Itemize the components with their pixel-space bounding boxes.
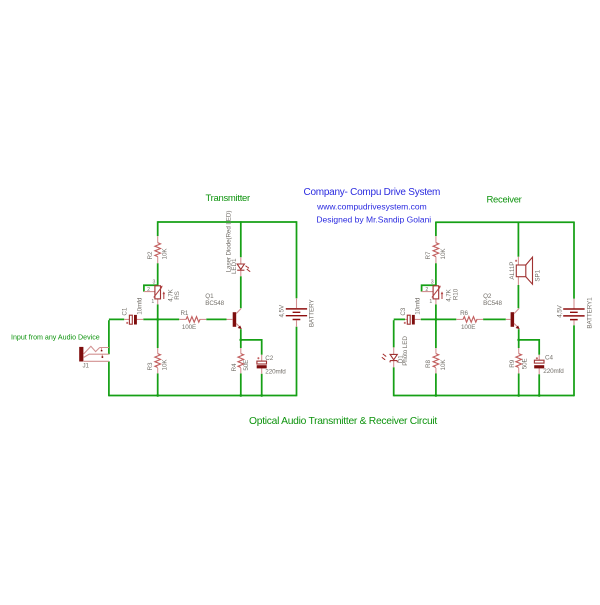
svg-text:Transmitter: Transmitter <box>206 193 251 204</box>
svg-text:4,5V: 4,5V <box>556 304 563 317</box>
resistor R7 <box>425 236 447 263</box>
wire RX battery top <box>573 222 575 299</box>
resistor R9 <box>509 348 529 373</box>
svg-text:C1: C1 <box>122 307 129 315</box>
svg-text:LED1: LED1 <box>231 258 238 274</box>
wire TX rail C1 to R1 <box>143 318 179 320</box>
wire RX R6 to Q2 base <box>483 318 506 320</box>
svg-text:10mfd: 10mfd <box>414 297 421 315</box>
wire TX emitter down <box>240 329 242 348</box>
svg-text:C3: C3 <box>400 307 407 315</box>
svg-text:AL11P: AL11P <box>509 262 516 280</box>
svg-text:J1: J1 <box>82 363 89 370</box>
battery BATTERY1 (4,5V) <box>556 297 593 329</box>
svg-text:R1: R1 <box>180 310 188 317</box>
svg-text:R4: R4 <box>231 363 238 371</box>
svg-text:10K: 10K <box>440 248 447 260</box>
wire RX emitter down <box>518 329 520 348</box>
svg-text:10K: 10K <box>162 359 169 371</box>
node TX R4 ground junction <box>239 394 242 397</box>
resistor R1 <box>179 310 206 331</box>
svg-text:50E: 50E <box>243 360 250 371</box>
svg-text:C4: C4 <box>545 355 553 362</box>
wire RX bottom rail <box>394 395 574 397</box>
speaker SP1 <box>509 257 542 285</box>
svg-text:SP1: SP1 <box>535 269 542 281</box>
svg-text:Receiver: Receiver <box>486 194 521 205</box>
wire TX left vertical lower (jack sleeve to ground) <box>108 361 110 396</box>
wire TX R1 to Q1 base <box>206 318 226 320</box>
wire TX R3 branch <box>157 319 159 395</box>
node TX C2 ground junction <box>260 394 263 397</box>
svg-text:C2: C2 <box>265 355 273 362</box>
svg-text:220mfd: 220mfd <box>543 368 564 375</box>
node RX R9 ground junction <box>517 394 520 397</box>
resistor R4 <box>231 348 250 373</box>
transistor Q2 <box>483 293 519 329</box>
node RX C4 ground junction <box>538 394 541 397</box>
svg-text:4,5V: 4,5V <box>279 304 286 317</box>
capacitor C4 <box>534 355 564 375</box>
battery BATTERY (4,5V) <box>279 298 316 327</box>
svg-text:Photo LED: Photo LED <box>402 336 409 366</box>
wire RX rail C3 to R6 <box>421 318 457 320</box>
svg-text:R9: R9 <box>509 359 516 367</box>
wire RX top rail <box>436 221 574 223</box>
resistor R2 <box>147 236 169 263</box>
svg-text:Designed by Mr.Sandip Golani: Designed by Mr.Sandip Golani <box>316 214 431 224</box>
wire RX C4 branch <box>519 340 540 396</box>
svg-text:Optical Audio Transmitter & Re: Optical Audio Transmitter & Receiver Cir… <box>249 416 437 427</box>
svg-text:BC548: BC548 <box>205 300 224 307</box>
svg-text:10K: 10K <box>162 248 169 260</box>
wire RX left corner (rail to D1 branch) <box>394 319 405 347</box>
wire TX trimmer wiper link <box>144 285 159 291</box>
trimmer R10 <box>422 280 460 306</box>
svg-text:R10: R10 <box>452 288 459 300</box>
svg-text:R3: R3 <box>147 362 154 370</box>
wire TX left vertical upper (jack signal to C1 corner) <box>109 319 124 354</box>
svg-text:R2: R2 <box>147 251 154 259</box>
svg-text:50E: 50E <box>521 358 528 369</box>
svg-text:2: 2 <box>147 287 150 293</box>
wire RX R9 to ground <box>518 373 520 395</box>
svg-text:Input from any Audio Device: Input from any Audio Device <box>11 334 100 342</box>
svg-text:Company- Compu Drive System: Company- Compu Drive System <box>303 187 440 198</box>
resistor R3 <box>147 348 169 373</box>
svg-text:3: 3 <box>431 280 434 286</box>
node TX emitter junction <box>239 339 242 342</box>
capacitor C1 <box>122 297 144 324</box>
svg-text:1: 1 <box>429 299 432 305</box>
wire RX D1 to ground <box>393 367 395 396</box>
svg-text:10K: 10K <box>440 359 447 371</box>
svg-text:2: 2 <box>425 287 428 293</box>
node RX rail junction <box>435 318 438 321</box>
svg-text:1: 1 <box>151 299 154 305</box>
svg-text:BC548: BC548 <box>483 300 502 307</box>
wire TX battery top <box>296 221 298 298</box>
node TX rail junction <box>156 318 159 321</box>
wire RX speaker branch <box>517 222 519 309</box>
svg-text:3: 3 <box>153 280 156 286</box>
LED LED1 <box>225 211 250 277</box>
svg-text:BATTERY1: BATTERY1 <box>587 297 594 329</box>
wire RX R8 branch <box>435 319 437 395</box>
wire RX R7 branch top <box>435 222 437 237</box>
wire TX trimmer to rail <box>157 304 159 319</box>
wire TX R2 branch top <box>157 221 159 236</box>
svg-text:R8: R8 <box>425 359 432 367</box>
wire RX trimmer to rail <box>435 304 437 319</box>
wire TX between R2 and trimmer <box>157 263 159 285</box>
wire TX top rail <box>158 221 297 223</box>
resistor R6 <box>456 310 483 331</box>
svg-text:R7: R7 <box>425 251 432 259</box>
node RX R8 ground junction <box>435 394 438 397</box>
transistor Q1 <box>205 293 241 329</box>
wire TX bottom rail <box>109 395 297 397</box>
node TX R3 ground junction <box>156 394 159 397</box>
trimmer RS <box>144 280 181 306</box>
wire RX trimmer wiper link <box>422 285 437 291</box>
connector J1 audio jack <box>79 346 109 369</box>
svg-text:www.compudrivesystem.com: www.compudrivesystem.com <box>316 201 427 211</box>
photodiode D1 <box>382 336 409 368</box>
svg-text:220mfd: 220mfd <box>265 368 286 375</box>
svg-text:RS: RS <box>174 291 181 300</box>
wire RX battery bottom <box>573 325 575 396</box>
capacitor C2 <box>257 355 287 376</box>
wire TX LED branch <box>240 221 242 308</box>
wire RX between R7 and trimmer <box>435 263 437 285</box>
wire TX battery bottom <box>296 327 298 397</box>
node RX emitter junction <box>517 339 520 342</box>
resistor R8 <box>425 348 447 373</box>
svg-text:100E: 100E <box>182 324 196 331</box>
svg-text:BATTERY: BATTERY <box>309 299 316 328</box>
svg-text:10mfd: 10mfd <box>136 297 143 315</box>
svg-text:100E: 100E <box>461 324 475 331</box>
wire TX C2 branch <box>241 340 262 396</box>
capacitor C3 <box>400 297 422 324</box>
svg-text:R6: R6 <box>460 310 468 317</box>
wire TX R4 to ground <box>240 373 242 395</box>
